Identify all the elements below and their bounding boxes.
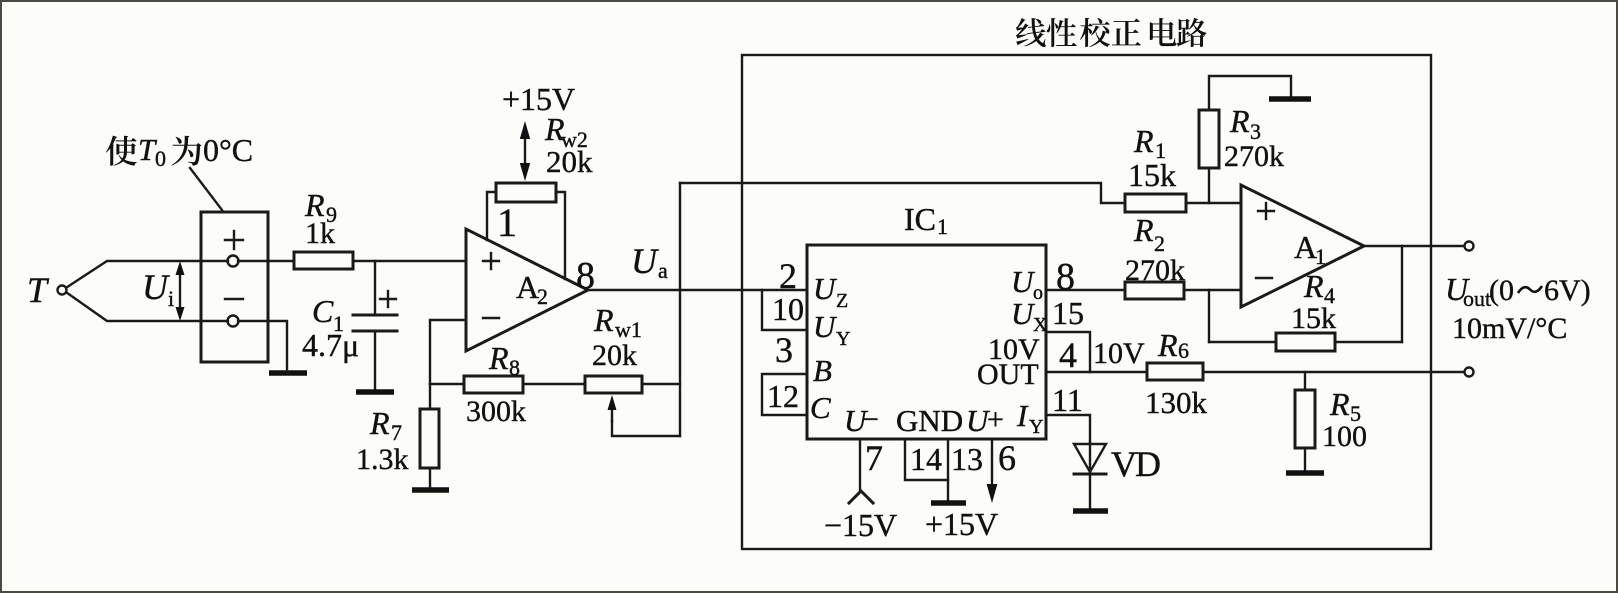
wire A1 feedback node — [1208, 290, 1210, 342]
potentiometer Rw1 — [585, 302, 642, 393]
svg-text:OUT: OUT — [977, 358, 1039, 391]
label U plus — [966, 403, 1004, 438]
ground (C1) — [356, 389, 394, 395]
svg-text:15k: 15k — [1128, 157, 1176, 193]
svg-text:Z: Z — [836, 290, 848, 312]
resistor R1 — [1125, 123, 1186, 212]
svg-text:15: 15 — [1052, 295, 1084, 331]
wire A2 inverting input — [430, 320, 466, 384]
wire plus terminal to R9 — [238, 260, 294, 262]
wire OUT pin — [1046, 371, 1147, 373]
svg-text:270k: 270k — [1224, 140, 1284, 173]
ground (reference junction) — [269, 370, 307, 376]
op-amp A2 — [466, 229, 588, 351]
label UY — [813, 309, 850, 350]
resistor R5 — [1295, 372, 1367, 470]
label linear correction circuit title — [1016, 18, 1207, 47]
svg-text:R: R — [1303, 268, 1324, 304]
potentiometer Rw2 — [487, 111, 593, 279]
svg-text:R: R — [1133, 212, 1154, 248]
svg-text:7: 7 — [391, 420, 402, 445]
svg-text:T: T — [27, 270, 50, 310]
wire Rw1 right terminal — [642, 383, 680, 385]
svg-text:U: U — [813, 271, 838, 306]
svg-text:1k: 1k — [305, 217, 335, 250]
svg-text:10V: 10V — [1093, 337, 1145, 370]
svg-text:130k: 130k — [1145, 385, 1208, 420]
svg-text:+15V: +15V — [502, 81, 575, 117]
svg-text:R: R — [369, 405, 390, 441]
ground (pins 13 14) — [931, 500, 966, 506]
resistor R8 — [430, 340, 526, 428]
svg-text:0: 0 — [155, 146, 166, 171]
label UX — [1011, 296, 1048, 336]
svg-text:15k: 15k — [1291, 302, 1336, 335]
box linear correction circuit — [742, 55, 1431, 549]
node output terminal bottom — [1465, 368, 1474, 377]
svg-text:300k: 300k — [466, 395, 526, 428]
pointer line to box — [190, 168, 222, 210]
svg-text:A: A — [1294, 229, 1317, 265]
ground (R3) — [1269, 96, 1311, 102]
svg-text:10: 10 — [772, 291, 804, 327]
svg-text:6: 6 — [1178, 338, 1189, 363]
capacitor C1 — [302, 261, 397, 390]
resistor R4 — [1209, 246, 1402, 351]
wire thermocouple plus lead — [67, 261, 229, 288]
svg-text:100: 100 — [1322, 420, 1367, 453]
resistor R6 — [1145, 327, 1208, 420]
svg-text:(0: (0 — [1489, 274, 1514, 307]
wire R6 to output terminal — [1203, 371, 1464, 373]
pin 10 strap — [762, 290, 807, 330]
svg-text:R: R — [593, 302, 614, 338]
svg-text:−15V: −15V — [824, 507, 897, 543]
ground (R7) — [412, 487, 449, 493]
svg-text:2: 2 — [537, 284, 548, 309]
svg-text:6: 6 — [998, 438, 1016, 478]
svg-text:Y: Y — [836, 328, 850, 350]
svg-text:A: A — [516, 269, 539, 305]
svg-text:+15V: +15V — [925, 506, 998, 542]
plus terminal of reference box — [225, 231, 243, 267]
svg-text:20k: 20k — [546, 144, 593, 179]
svg-text:8: 8 — [1056, 256, 1075, 298]
svg-text:IC: IC — [904, 201, 936, 237]
svg-text:6V): 6V) — [1544, 274, 1591, 307]
svg-text:11: 11 — [1052, 382, 1083, 418]
svg-text:1: 1 — [937, 214, 948, 239]
op-amp A1 — [1241, 185, 1364, 307]
svg-text:2: 2 — [1154, 231, 1165, 256]
measurement arrow Ui — [176, 261, 185, 321]
svg-text:3: 3 — [775, 330, 793, 370]
wire A1 output — [1364, 245, 1464, 247]
svg-text:I: I — [1016, 398, 1029, 433]
ground (R5) — [1286, 470, 1324, 476]
svg-text:20k: 20k — [592, 339, 637, 372]
svg-text:0°C: 0°C — [203, 132, 253, 168]
wire minus terminal to ground — [238, 321, 287, 369]
svg-text:Y: Y — [1029, 416, 1043, 438]
svg-text:C: C — [810, 390, 831, 425]
svg-text:4.7μ: 4.7μ — [302, 327, 359, 363]
svg-text:i: i — [168, 286, 174, 311]
svg-text:270k: 270k — [1125, 254, 1185, 287]
node output terminal top — [1465, 242, 1474, 251]
wire feedforward top — [680, 183, 1125, 203]
svg-text:13: 13 — [951, 441, 983, 477]
svg-text:8: 8 — [509, 355, 520, 380]
wire R2 to A1 inverting input — [1184, 289, 1241, 291]
pin 15 to pin 4 strap — [1046, 332, 1090, 375]
svg-text:out: out — [1463, 286, 1491, 311]
svg-text:U: U — [631, 241, 659, 281]
wire Rw1 wiper to feedback — [612, 421, 680, 436]
wire R9 to A2 noninverting input — [353, 260, 466, 262]
resistor R2 — [1125, 212, 1185, 299]
IC IC1 — [807, 245, 1046, 439]
svg-text:a: a — [658, 258, 668, 283]
wire A2 output Ua — [588, 289, 807, 291]
label UZ — [813, 271, 848, 312]
label Uo — [1011, 264, 1043, 304]
label shi T0 wei 0degC — [106, 132, 253, 171]
wire R8 to Rw1 — [523, 383, 585, 385]
wire feedback vertical — [679, 183, 681, 436]
svg-text:U: U — [142, 267, 170, 307]
svg-text:VD: VD — [1111, 444, 1160, 484]
pin 13 wire to ground — [947, 439, 949, 500]
svg-text:1.3k: 1.3k — [356, 443, 409, 476]
label Uout — [1445, 271, 1591, 311]
svg-text:10mV/°C: 10mV/°C — [1452, 312, 1567, 345]
svg-text:2: 2 — [779, 256, 797, 296]
svg-text:4: 4 — [1059, 335, 1077, 375]
svg-text:7: 7 — [865, 438, 883, 478]
label U minus — [844, 403, 879, 438]
ground (VD) — [1073, 508, 1108, 514]
svg-text:R: R — [1133, 123, 1154, 159]
label IC1 — [904, 201, 948, 239]
wire thermocouple minus lead — [67, 293, 229, 322]
svg-text:R: R — [488, 340, 509, 376]
svg-text:GND: GND — [896, 403, 963, 438]
resistor R3 — [1199, 76, 1291, 203]
pin 14 strap — [905, 439, 948, 480]
svg-text:+: + — [987, 403, 1004, 436]
pin 7 wire — [859, 439, 861, 491]
svg-text:R: R — [1157, 327, 1178, 363]
wiper arrow Rw1 — [608, 395, 617, 421]
minus terminal of reference box — [225, 299, 243, 327]
diode VD — [1074, 442, 1160, 509]
reference junction box — [201, 212, 268, 362]
svg-text:U: U — [813, 309, 838, 344]
pin 6 wire with arrow — [987, 439, 998, 503]
svg-text:14: 14 — [910, 441, 942, 477]
node T terminal — [58, 286, 67, 295]
pin 8 wire — [1046, 289, 1125, 291]
resistor R9 — [294, 187, 353, 269]
minus supply chevron — [849, 491, 873, 503]
svg-text:C: C — [312, 293, 334, 329]
pin 12 strap — [762, 374, 807, 415]
pin 11 wire — [1046, 415, 1090, 442]
label IY — [1016, 398, 1043, 438]
svg-text:1: 1 — [497, 200, 517, 245]
svg-text:R: R — [1329, 386, 1350, 422]
svg-text:1: 1 — [1315, 244, 1326, 269]
svg-text:−: − — [862, 403, 879, 436]
svg-text:o: o — [1033, 282, 1043, 304]
svg-text:R: R — [1229, 103, 1250, 139]
wire R1 to A1 noninverting input — [1186, 202, 1241, 204]
svg-text:B: B — [813, 353, 832, 388]
wiper arrow Rw2 — [520, 121, 530, 181]
resistor R7 — [356, 384, 439, 488]
svg-text:12: 12 — [767, 378, 799, 414]
label Ua — [631, 241, 668, 283]
